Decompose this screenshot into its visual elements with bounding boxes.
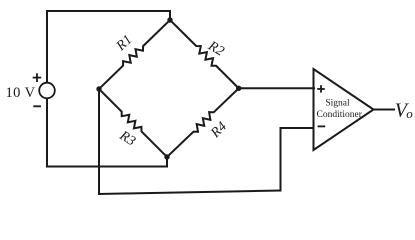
resistor R3 [99,89,167,157]
node top [167,17,172,22]
minus sign op-amp [318,125,326,127]
resistor R2 [170,20,239,88]
plus sign source [33,77,42,79]
resistor R1 [99,20,170,89]
op-amp U1 signal conditioner [314,69,374,150]
wire left rail lower [47,99,167,167]
svg-text:10 V: 10 V [6,85,36,101]
wire left rail upper [46,11,48,82]
svg-text:Conditioner: Conditioner [317,110,363,120]
svg-text:R2: R2 [205,38,227,59]
svg-text:Signal: Signal [325,99,350,109]
node right [236,86,241,91]
wire plus input [239,87,314,89]
wire minus input [281,128,314,191]
wire output [374,109,395,111]
minus sign source [33,105,41,107]
svg-text:R1: R1 [113,32,135,54]
node bottom [164,154,169,159]
wire top rail [47,11,170,20]
voltage source V1 [39,83,55,99]
svg-text:R3: R3 [116,128,138,149]
plus sign op-amp [317,88,325,90]
wire left node tap [98,89,100,194]
wire lower rail [99,191,281,195]
svg-text:R4: R4 [208,119,230,141]
svg-text:o: o [406,106,413,121]
node left [96,86,101,91]
resistor R4 [167,88,239,157]
